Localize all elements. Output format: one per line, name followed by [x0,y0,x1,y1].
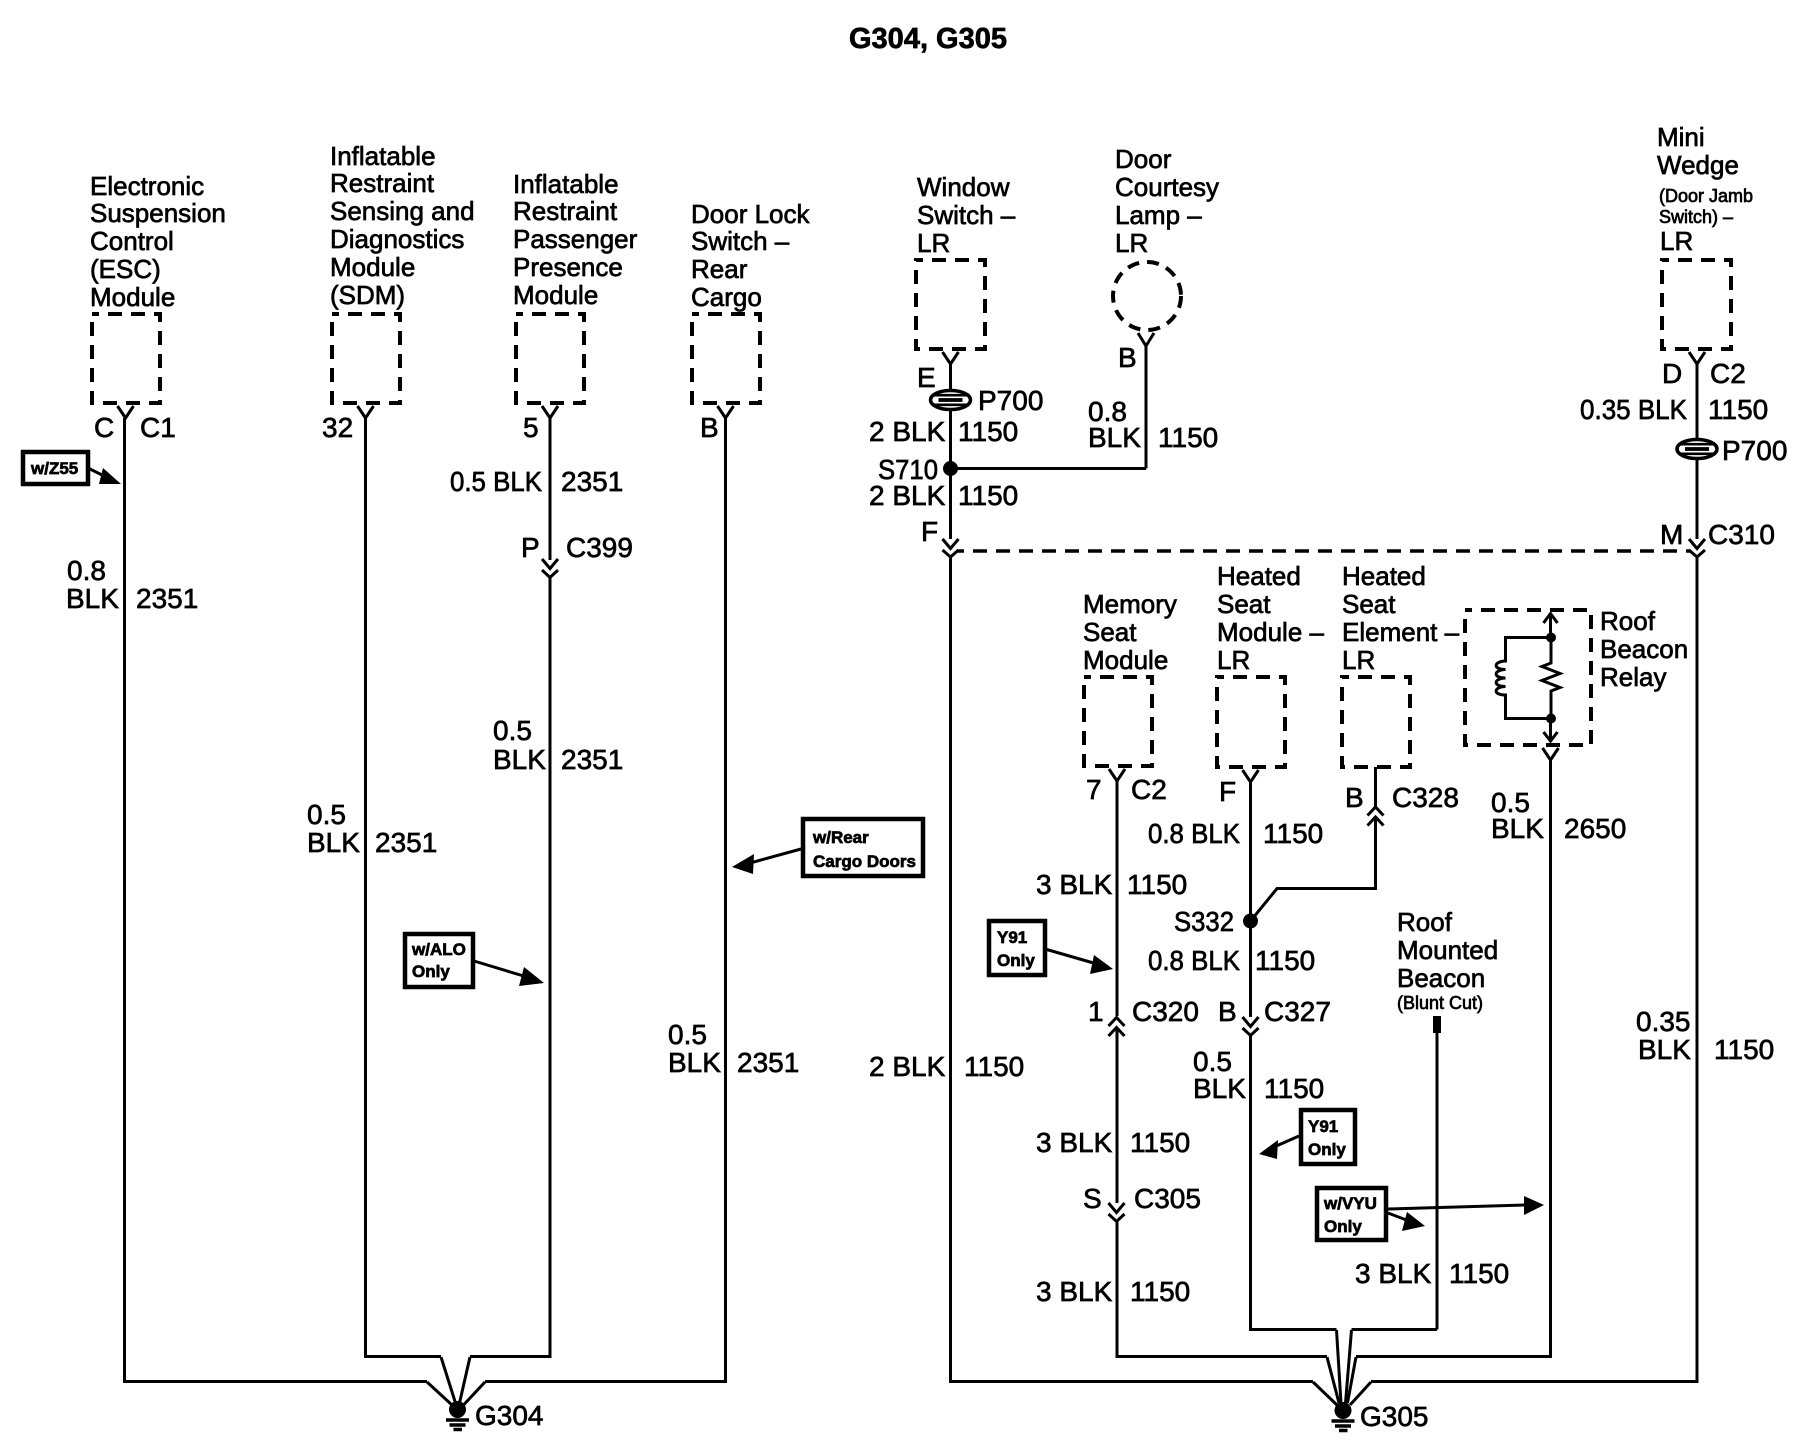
wire Presence lower 0.5 BLK 2351 [470,578,550,1357]
Y91 Only arrow (upper) [1045,949,1113,974]
svg-text:Module: Module [90,282,175,312]
wire Heated Seat Element to S332 [1253,817,1376,918]
svg-text:E: E [917,362,936,393]
svg-text:3 BLK: 3 BLK [1355,1258,1432,1289]
svg-text:0.35: 0.35 [1636,1006,1691,1037]
svg-text:B: B [1218,996,1237,1027]
wire label 3 BLK 1150 (upper) [1036,869,1187,900]
in-line connector symbol at M C310 (arrow down + chevron) [1689,539,1705,557]
svg-text:1150: 1150 [958,416,1018,447]
svg-text:BLK: BLK [1193,1073,1246,1104]
svg-text:Only: Only [1308,1140,1346,1159]
Y91 Only condition box (lower) [1301,1110,1355,1164]
wire bus segment (blunt-cut side) [1352,1328,1438,1331]
Mini Wedge connector box (dashed) [1662,260,1731,349]
svg-text:Sensing and: Sensing and [330,196,475,226]
Presence module connector box (dashed) [516,314,584,403]
Roof Mounted Beacon (Blunt Cut) label [1397,907,1498,1013]
svg-text:1150: 1150 [1130,1127,1190,1158]
wire Window Switch mid segment [949,465,952,539]
w/ALO Only condition box [405,934,473,987]
svg-text:1150: 1150 [1127,869,1187,900]
w/VYU short arrow [1388,1212,1425,1231]
wire label 3 BLK 1150 (beacon) [1355,1258,1509,1289]
svg-text:C310: C310 [1708,519,1775,550]
svg-text:Courtesy: Courtesy [1115,172,1219,202]
svg-text:D: D [1662,358,1682,389]
wire Door Courtesy Lamp 0.8 BLK 1150 [1145,346,1148,469]
svg-text:BLK: BLK [493,744,546,775]
svg-text:Passenger: Passenger [513,224,638,254]
svg-text:1: 1 [1088,996,1104,1027]
svg-text:Roof: Roof [1600,606,1656,636]
wire SDM ground 0.5 BLK 2351 [366,418,442,1357]
harness boundary dashed line [957,549,1690,553]
wire Window Switch upper segment [949,364,952,465]
ESC module connector box (dashed) [92,314,160,403]
relay coil branch (left) [1496,638,1551,719]
svg-text:BLK: BLK [66,583,119,614]
svg-text:BLK: BLK [1491,813,1544,844]
svg-text:F: F [1219,776,1236,807]
Window Switch - LR label [917,172,1016,258]
svg-text:LR: LR [1660,226,1693,256]
svg-text:C305: C305 [1134,1183,1201,1214]
svg-text:Only: Only [1324,1217,1362,1236]
svg-text:Heated: Heated [1217,561,1301,591]
Y91 Only condition box (upper) [989,921,1045,975]
svg-text:2351: 2351 [375,827,437,858]
svg-text:3 BLK: 3 BLK [1036,1276,1113,1307]
wire label 0.8 BLK 2351 [66,555,198,614]
svg-text:0.8: 0.8 [67,555,106,586]
svg-text:0.35 BLK: 0.35 BLK [1580,394,1687,425]
wire label 0.8 BLK 1150 (below S332) [1148,945,1315,976]
svg-text:P: P [521,532,540,563]
svg-text:1150: 1150 [1255,945,1315,976]
svg-text:Y91: Y91 [997,928,1027,947]
Mini Wedge pin fork [1689,352,1705,364]
wire label 3 BLK 1150 (lower) [1036,1276,1190,1307]
svg-text:0.8 BLK: 0.8 BLK [1148,818,1240,849]
svg-text:BLK: BLK [307,827,360,858]
svg-text:Wedge: Wedge [1657,150,1739,180]
svg-text:Electronic: Electronic [90,171,204,201]
svg-text:Window: Window [917,172,1010,202]
svg-text:Y91: Y91 [1308,1117,1338,1136]
svg-text:2351: 2351 [737,1047,799,1078]
svg-text:1150: 1150 [1263,818,1323,849]
svg-text:Control: Control [90,226,174,256]
svg-text:B: B [1345,782,1364,813]
svg-text:2351: 2351 [561,466,623,497]
svg-text:3 BLK: 3 BLK [1036,869,1113,900]
Memory Seat Module connector box (dashed) [1084,677,1152,766]
svg-text:(ESC): (ESC) [90,254,161,284]
SDM pin fork [358,406,374,418]
svg-text:BLK: BLK [1088,422,1141,453]
svg-text:2351: 2351 [561,744,623,775]
splice S710 junction dot [943,461,958,476]
Door Courtesy Lamp - LR label [1115,144,1219,258]
svg-text:1150: 1150 [1714,1034,1774,1065]
svg-text:Restraint: Restraint [513,196,618,226]
svg-text:2 BLK: 2 BLK [869,416,946,447]
w/Z55 condition box [23,452,88,484]
Heated Seat Element - LR label [1342,561,1460,675]
svg-text:C320: C320 [1132,996,1199,1027]
wire Heated Seat Module segment 1 [1249,782,1252,1017]
Memory Seat pin fork [1109,769,1125,781]
svg-text:1150: 1150 [1158,422,1218,453]
svg-text:G304, G305: G304, G305 [849,23,1007,55]
svg-text:Seat: Seat [1342,589,1396,619]
svg-text:Roof: Roof [1397,907,1453,937]
svg-text:C327: C327 [1264,996,1331,1027]
ground G305 symbol [1332,1402,1355,1431]
svg-text:G305: G305 [1360,1401,1429,1432]
svg-text:32: 32 [322,412,353,443]
svg-text:LR: LR [1115,228,1148,258]
wire label 0.8 BLK 1150 (lamp) [1088,396,1218,453]
svg-text:Relay: Relay [1600,662,1666,692]
svg-text:5: 5 [523,412,539,443]
Mini Wedge (Door Jamb Switch) - LR label [1657,122,1753,256]
Electronic Suspension Control (ESC) Module label [90,171,226,312]
w/Rear Cargo Doors condition box [803,819,923,876]
in-line connector C328 symbol (chevron + arrow up) [1368,807,1384,826]
svg-text:w/Rear: w/Rear [812,828,869,847]
wire label 0.5 BLK 2351 (lower) [493,715,623,775]
wire label 3 BLK 1150 (middle) [1036,1127,1190,1158]
Window Switch pin fork [943,352,959,364]
svg-text:Module: Module [513,280,598,310]
svg-text:C2: C2 [1710,358,1746,389]
relay resistor branch (right) [1542,638,1560,719]
svg-text:Cargo: Cargo [691,282,762,312]
Roof Beacon Relay box (dashed) [1465,610,1591,745]
svg-text:C399: C399 [566,532,633,563]
svg-text:Door Lock: Door Lock [691,199,810,229]
ground G304 symbol [446,1401,469,1430]
wire S710 to Door Courtesy Lamp (horizontal) [951,467,1147,470]
svg-text:Switch) –: Switch) – [1659,207,1733,227]
svg-text:G304: G304 [475,1400,544,1431]
grommet P700 (mini wedge wire) [1677,440,1717,459]
wire ESC ground 0.8 BLK 2351 (vertical) [125,418,428,1382]
svg-text:P700: P700 [1722,435,1787,466]
Presence pin fork [542,406,558,418]
svg-text:Element –: Element – [1342,617,1460,647]
svg-text:3 BLK: 3 BLK [1036,1127,1113,1158]
svg-text:Memory: Memory [1083,589,1177,619]
svg-text:1150: 1150 [1130,1276,1190,1307]
wire Presence upper 0.5 BLK 2351 [549,418,552,560]
wire label 0.35 BLK 1150 (mini wedge) [1580,394,1768,425]
svg-text:LR: LR [917,228,950,258]
Heated Seat Module connector box (dashed) [1217,677,1285,767]
G305 ground fan wires [1313,1330,1371,1405]
relay output fork [1543,748,1559,760]
svg-text:C1: C1 [140,412,176,443]
svg-text:Only: Only [412,962,450,981]
in-line connector C320 symbol (chevron + arrow up) [1109,1018,1125,1037]
svg-text:Lamp –: Lamp – [1115,200,1202,230]
svg-text:P700: P700 [978,385,1043,416]
wire label 0.5 BLK 2351 (upper) [450,466,623,497]
w/VYU long arrow [1388,1196,1544,1215]
wire Heated Seat Element upper stub [1374,767,1377,807]
Door Lock connector box (dashed) [692,314,760,403]
svg-text:C: C [94,412,114,443]
svg-text:2351: 2351 [136,583,198,614]
relay bottom junction dot [1546,714,1556,724]
svg-text:1150: 1150 [964,1051,1024,1082]
svg-text:Mounted: Mounted [1397,935,1498,965]
svg-text:Diagnostics: Diagnostics [330,224,464,254]
svg-text:Inflatable: Inflatable [513,169,619,199]
wire label 2 BLK 1150 (above S710) [869,416,1018,447]
wire label 0.5 BLK 2351 (door lock) [668,1019,799,1078]
svg-text:Mini: Mini [1657,122,1705,152]
svg-text:Only: Only [997,951,1035,970]
Heated Seat Element connector box (dashed) [1342,677,1410,767]
svg-text:S: S [1083,1183,1102,1214]
in-line connector symbol at F (arrow down + chevron) [943,539,959,557]
wire label 0.5 BLK 1150 [1193,1046,1324,1104]
svg-text:Cargo Doors: Cargo Doors [813,852,916,871]
svg-text:Seat: Seat [1217,589,1271,619]
svg-text:Switch –: Switch – [917,200,1016,230]
svg-text:Heated: Heated [1342,561,1426,591]
svg-text:C2: C2 [1131,774,1167,805]
svg-text:Suspension: Suspension [90,198,226,228]
svg-text:1150: 1150 [958,480,1018,511]
G304 ground fan wires [427,1357,485,1405]
svg-text:Seat: Seat [1083,617,1137,647]
svg-text:2650: 2650 [1564,813,1626,844]
wire Roof Mounted Beacon 3 BLK 1150 [1436,1033,1439,1330]
wire label 0.35 BLK 1150 (bottom right) [1636,1006,1774,1065]
in-line connector C305 symbol (arrow down + chevron) [1109,1203,1125,1222]
w/VYU Only condition box [1317,1188,1386,1240]
svg-text:0.5: 0.5 [493,715,532,746]
svg-text:w/Z55: w/Z55 [30,459,78,478]
grommet P700 (window switch wire) [931,391,971,410]
svg-text:LR: LR [1342,645,1375,675]
svg-text:2 BLK: 2 BLK [869,1051,946,1082]
relay pin arrow (down, internal) [1544,719,1558,742]
svg-text:1150: 1150 [1708,394,1768,425]
svg-text:B: B [700,412,719,443]
svg-text:C328: C328 [1392,782,1459,813]
Heated Seat Module - LR label [1217,561,1324,675]
relay pin arrow (up, internal) [1544,614,1558,638]
wire Mini Wedge upper segment [1696,364,1699,445]
Memory Seat Module label [1083,589,1177,675]
wire Roof Beacon Relay 0.5 BLK 2650 to G305 [1356,760,1551,1357]
wire label 2 BLK 1150 (bottom) [869,1051,1024,1082]
Inflatable Restraint Passenger Presence Module label [513,169,638,310]
svg-text:S332: S332 [1174,906,1234,937]
Window Switch connector box (dashed) [916,260,985,349]
Door Lock Switch - Rear Cargo label [691,199,810,312]
w/Z55 arrow [88,468,121,484]
wire label 0.5 BLK 2351 (SDM) [307,799,437,858]
SDM connector box (dashed) [332,314,400,403]
svg-text:Module: Module [1083,645,1168,675]
svg-text:Rear: Rear [691,254,748,284]
ESC pin fork [118,406,134,418]
svg-text:1150: 1150 [1449,1258,1509,1289]
svg-text:Restraint: Restraint [330,168,435,198]
wire label 0.8 BLK 1150 (above S332) [1148,818,1323,849]
svg-text:Inflatable: Inflatable [330,141,436,171]
Heated Seat Module pin fork [1243,770,1259,782]
svg-text:BLK: BLK [668,1047,721,1078]
wire Memory Seat segment 3 to G305 [1117,1222,1327,1357]
wire Window Switch lower segment to G305 [951,557,1314,1382]
svg-text:LR: LR [1217,645,1250,675]
wire Memory Seat segment 2 [1116,1028,1119,1204]
wire Mini Wedge lower segment to G305 [1371,557,1697,1382]
wire Mini Wedge mid segment [1696,459,1699,539]
Door Lock pin fork [718,406,734,418]
relay top junction dot [1546,633,1556,643]
w/Rear arrow [732,849,801,874]
svg-text:0.8 BLK: 0.8 BLK [1148,945,1240,976]
svg-text:Presence: Presence [513,252,623,282]
svg-text:Door: Door [1115,144,1172,174]
Lamp pin fork [1138,333,1154,346]
svg-text:BLK: BLK [1638,1034,1691,1065]
svg-text:F: F [921,516,938,547]
wire label 2 BLK 1150 (below S710) [869,480,1018,511]
svg-text:(Door Jamb: (Door Jamb [1659,186,1753,206]
svg-text:Module –: Module – [1217,617,1324,647]
svg-text:w/VYU: w/VYU [1323,1194,1377,1213]
svg-text:0.5: 0.5 [307,799,346,830]
svg-text:w/ALO: w/ALO [411,940,466,959]
Y91 Only arrow (lower) [1259,1136,1299,1159]
svg-text:M: M [1660,519,1683,550]
svg-text:2 BLK: 2 BLK [869,480,946,511]
svg-text:B: B [1118,342,1137,373]
svg-text:Beacon: Beacon [1600,634,1688,664]
svg-text:Switch –: Switch – [691,226,790,256]
Door Courtesy Lamp (dashed circle) [1113,262,1181,330]
svg-text:0.5: 0.5 [668,1019,707,1050]
Roof Beacon Relay label [1600,606,1688,692]
svg-text:(SDM): (SDM) [330,280,405,310]
w/ALO arrow [474,961,544,986]
svg-text:(Blunt Cut): (Blunt Cut) [1397,993,1483,1013]
wire Memory Seat segment 1 [1116,781,1119,1016]
in-line connector C327 symbol (arrow down + chevron) [1243,1017,1259,1036]
svg-text:1150: 1150 [1264,1073,1324,1104]
svg-text:Beacon: Beacon [1397,963,1485,993]
in-line connector C399 symbol (arrow down + chevron) [542,559,558,578]
blunt cut terminal bar [1433,1016,1441,1033]
wire Door Lock 0.5 BLK 2351 [485,418,726,1382]
wire label 0.5 BLK 2650 [1491,787,1626,844]
splice S332 junction dot [1243,914,1258,929]
svg-text:Module: Module [330,252,415,282]
svg-text:7: 7 [1086,774,1102,805]
Inflatable Restraint Sensing and Diagnostics Module (SDM) label [330,141,475,310]
wire Heated Seat Module segment 2 to bus [1251,1036,1337,1330]
svg-text:0.5 BLK: 0.5 BLK [450,466,542,497]
